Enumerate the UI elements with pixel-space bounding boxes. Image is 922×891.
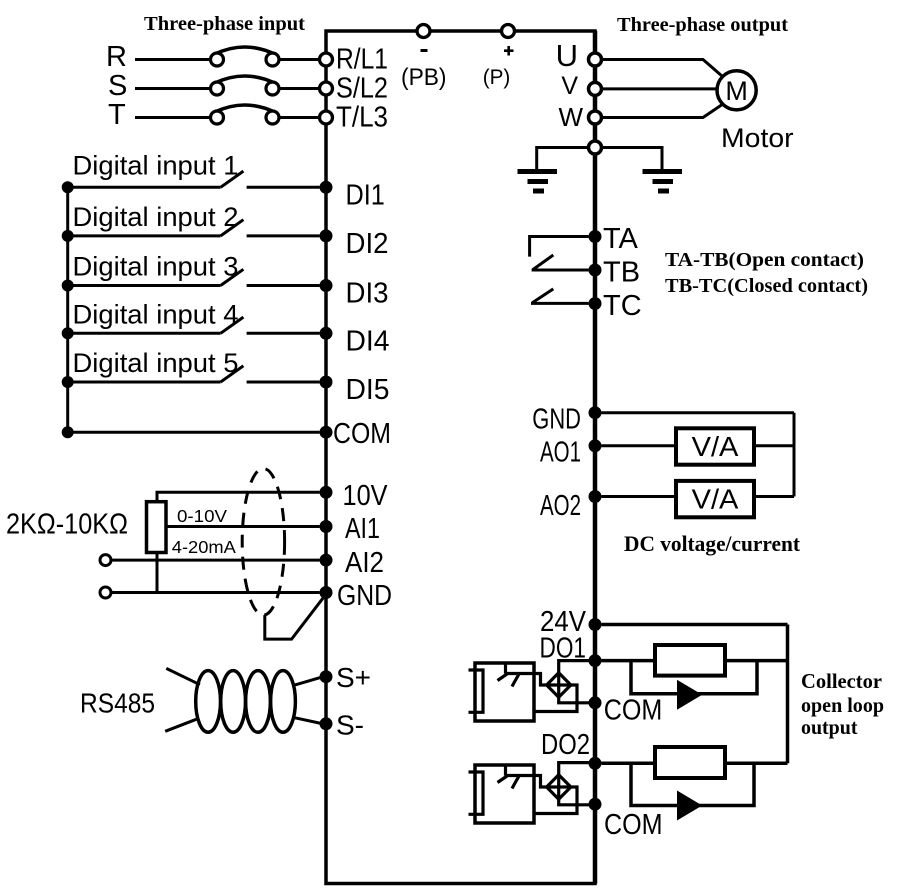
wire AI2 bbox=[111, 559, 320, 562]
wire W to motor bbox=[602, 104, 723, 117]
svg-text:AO2: AO2 bbox=[540, 490, 581, 522]
terminal U bbox=[589, 53, 602, 66]
svg-text:10V: 10V bbox=[343, 480, 389, 512]
terminal W bbox=[589, 111, 602, 124]
DO1 diode triangle bbox=[677, 680, 702, 710]
svg-text:Motor: Motor bbox=[721, 123, 794, 153]
terminal R/L1 bbox=[320, 53, 333, 66]
wire R to breaker bbox=[135, 58, 211, 61]
svg-text:TA-TB(Open contact): TA-TB(Open contact) bbox=[665, 250, 864, 271]
digital input bus (left vertical) bbox=[66, 186, 69, 432]
svg-text:DO1: DO1 bbox=[540, 633, 587, 665]
svg-text:RS485: RS485 bbox=[80, 688, 155, 719]
wire 10V bbox=[157, 492, 320, 501]
svg-text:Three-phase output: Three-phase output bbox=[617, 14, 788, 36]
svg-text:DI3: DI3 bbox=[346, 278, 389, 310]
wire to right ground bbox=[602, 148, 663, 171]
terminal DI3 bbox=[320, 279, 333, 292]
svg-text:GND: GND bbox=[337, 580, 392, 612]
svg-text:V: V bbox=[561, 72, 578, 100]
terminal AI2 bbox=[320, 554, 333, 567]
wire 24V bbox=[602, 623, 788, 627]
DO2 load resistor bbox=[655, 747, 725, 778]
inverter enclosure box bbox=[326, 31, 595, 884]
wire AO1 bbox=[602, 444, 795, 447]
RS485 twisted pair coil bbox=[196, 671, 296, 733]
terminal TB bbox=[589, 264, 602, 277]
svg-text:AI2: AI2 bbox=[345, 547, 384, 579]
AI2 input open circle bbox=[100, 555, 111, 566]
breaker R contact circle left bbox=[211, 53, 224, 66]
svg-text:S-: S- bbox=[336, 710, 364, 741]
meter V/A 2 bbox=[676, 481, 754, 517]
breaker T arc bbox=[215, 105, 275, 112]
wire breaker T to terminal T/L3 bbox=[279, 116, 320, 119]
terminal minus (PB) on top edge bbox=[417, 25, 430, 38]
terminal DI2 bbox=[320, 229, 333, 242]
svg-text:DI5: DI5 bbox=[346, 374, 390, 406]
ground symbol right bbox=[643, 172, 683, 192]
terminal S+ bbox=[320, 670, 333, 683]
motor M1 circle bbox=[717, 71, 756, 110]
DO2 diode triangle bbox=[677, 791, 702, 821]
terminal COM bbox=[320, 426, 333, 439]
wire GND analog bbox=[111, 591, 320, 594]
svg-text:S/L2: S/L2 bbox=[336, 73, 388, 105]
svg-text:AO1: AO1 bbox=[540, 437, 581, 469]
terminal T/L3 bbox=[320, 111, 333, 124]
relay blade TC bbox=[532, 289, 553, 303]
RS485 lead to S- bbox=[292, 717, 321, 723]
shield drain wire to GND bbox=[265, 597, 324, 639]
wire AO2 bbox=[602, 495, 795, 498]
terminal DI4 bbox=[320, 327, 333, 340]
resistor bottom leg bbox=[156, 553, 159, 593]
svg-text:(PB): (PB) bbox=[401, 64, 447, 91]
svg-text:COM: COM bbox=[333, 418, 391, 450]
svg-text:T: T bbox=[108, 99, 126, 131]
svg-text:Digital input 2: Digital input 2 bbox=[73, 202, 239, 232]
svg-text:TA: TA bbox=[603, 223, 639, 255]
terminal TC bbox=[589, 297, 602, 310]
svg-text:V/A: V/A bbox=[692, 431, 739, 462]
plus sign bbox=[504, 49, 514, 52]
DO2 load wire bbox=[602, 762, 788, 766]
terminal AI1 bbox=[320, 520, 333, 533]
DO1 load resistor bbox=[655, 645, 725, 676]
wire T to breaker bbox=[135, 116, 211, 119]
terminal GND bbox=[320, 586, 333, 599]
ground symbol left bbox=[518, 172, 558, 192]
svg-text:M: M bbox=[725, 76, 748, 106]
RS485 lead lower left bbox=[165, 718, 199, 731]
shielded cable ellipse bbox=[242, 469, 284, 616]
GND input open circle bbox=[100, 587, 111, 598]
svg-text:COM: COM bbox=[604, 809, 663, 841]
wire V to motor bbox=[602, 87, 718, 90]
terminal COM (DO1) bbox=[589, 696, 602, 709]
terminal S/L2 bbox=[320, 82, 333, 95]
svg-text:Collector: Collector bbox=[801, 669, 882, 693]
breaker R contact circle right bbox=[266, 53, 279, 66]
minus sign bbox=[421, 49, 428, 52]
svg-text:W: W bbox=[558, 102, 583, 132]
svg-text:R/L1: R/L1 bbox=[336, 44, 388, 76]
svg-text:COM: COM bbox=[604, 695, 663, 727]
svg-text:4-20mA: 4-20mA bbox=[172, 537, 236, 557]
terminal COM (DO2) bbox=[589, 798, 602, 811]
breaker R arc bbox=[215, 47, 275, 54]
svg-text:DC voltage/current: DC voltage/current bbox=[624, 531, 801, 556]
collector output right rail bbox=[786, 625, 790, 764]
terminal DI5 bbox=[320, 376, 333, 389]
svg-text:2KΩ-10KΩ: 2KΩ-10KΩ bbox=[6, 509, 128, 541]
breaker S arc bbox=[215, 76, 275, 83]
terminal V bbox=[589, 82, 602, 95]
svg-text:(P): (P) bbox=[483, 66, 511, 89]
terminal AO1 bbox=[589, 439, 602, 452]
relay common bracket TA bbox=[530, 237, 589, 257]
terminal DO1 bbox=[589, 654, 602, 667]
RS485 lead upper left bbox=[166, 668, 200, 684]
wire U to motor bbox=[602, 60, 723, 77]
wire to left ground bbox=[537, 148, 589, 171]
wire AI1 (wiper) bbox=[166, 525, 320, 528]
DO2 diode branch bbox=[631, 763, 754, 805]
right edge rail (thicker) bbox=[593, 31, 598, 884]
breaker T contact circle left bbox=[211, 111, 224, 124]
svg-text:S+: S+ bbox=[336, 662, 371, 693]
analog out right rail bbox=[793, 413, 796, 497]
svg-text:Digital input 3: Digital input 3 bbox=[73, 252, 239, 282]
relay contact TB wire bbox=[532, 269, 589, 272]
svg-text:Digital input 4: Digital input 4 bbox=[73, 300, 239, 330]
svg-text:AI1: AI1 bbox=[345, 513, 380, 545]
wire S to breaker bbox=[135, 87, 211, 90]
DO1 load wire bbox=[602, 659, 788, 663]
svg-text:R: R bbox=[106, 41, 127, 73]
relay contact TC wire bbox=[531, 302, 589, 305]
optocoupler U2 (DO2) bbox=[469, 763, 593, 823]
svg-text:output: output bbox=[801, 715, 858, 739]
terminal plus (P) on top edge bbox=[502, 25, 515, 38]
svg-text:DI4: DI4 bbox=[346, 326, 390, 358]
svg-text:open loop: open loop bbox=[801, 693, 884, 717]
svg-text:TC: TC bbox=[603, 290, 642, 322]
DO1 diode branch bbox=[631, 661, 757, 694]
COM wire bbox=[68, 431, 320, 434]
terminal TA bbox=[589, 230, 602, 243]
svg-text:GND: GND bbox=[532, 403, 581, 435]
svg-text:DI2: DI2 bbox=[346, 228, 389, 260]
svg-text:V/A: V/A bbox=[692, 484, 739, 515]
wire breaker R to terminal R/L1 bbox=[279, 58, 320, 61]
terminal 24V bbox=[589, 618, 602, 631]
svg-text:Digital input 1: Digital input 1 bbox=[73, 151, 239, 181]
svg-text:Three-phase input: Three-phase input bbox=[144, 13, 305, 35]
svg-text:0-10V: 0-10V bbox=[177, 506, 227, 526]
potentiometer resistor body bbox=[147, 502, 167, 553]
breaker S contact circle left bbox=[211, 82, 224, 95]
svg-text:U: U bbox=[556, 38, 578, 73]
wire breaker S to terminal S/L2 bbox=[279, 87, 320, 90]
RS485 lead to S+ bbox=[292, 677, 321, 686]
svg-text:TB: TB bbox=[603, 257, 640, 289]
svg-text:S: S bbox=[108, 70, 127, 102]
wire GND analog-out bbox=[602, 411, 795, 414]
terminal 10V bbox=[320, 486, 333, 499]
relay blade TB bbox=[533, 255, 553, 270]
terminal S- bbox=[320, 717, 333, 730]
svg-text:DO2: DO2 bbox=[541, 729, 590, 761]
terminal GND (analog out) bbox=[589, 406, 602, 419]
optocoupler U1 (DO1) bbox=[469, 661, 593, 721]
meter V/A 1 bbox=[676, 428, 754, 464]
terminal DO2 bbox=[589, 757, 602, 770]
breaker T contact circle right bbox=[266, 111, 279, 124]
breaker S contact circle right bbox=[266, 82, 279, 95]
terminal DI1 bbox=[320, 181, 333, 194]
svg-text:Digital input 5: Digital input 5 bbox=[73, 348, 239, 378]
terminal AO2 bbox=[589, 490, 602, 503]
svg-text:TB-TC(Closed contact): TB-TC(Closed contact) bbox=[665, 276, 868, 297]
svg-text:DI1: DI1 bbox=[346, 180, 385, 212]
svg-text:T/L3: T/L3 bbox=[336, 102, 388, 134]
